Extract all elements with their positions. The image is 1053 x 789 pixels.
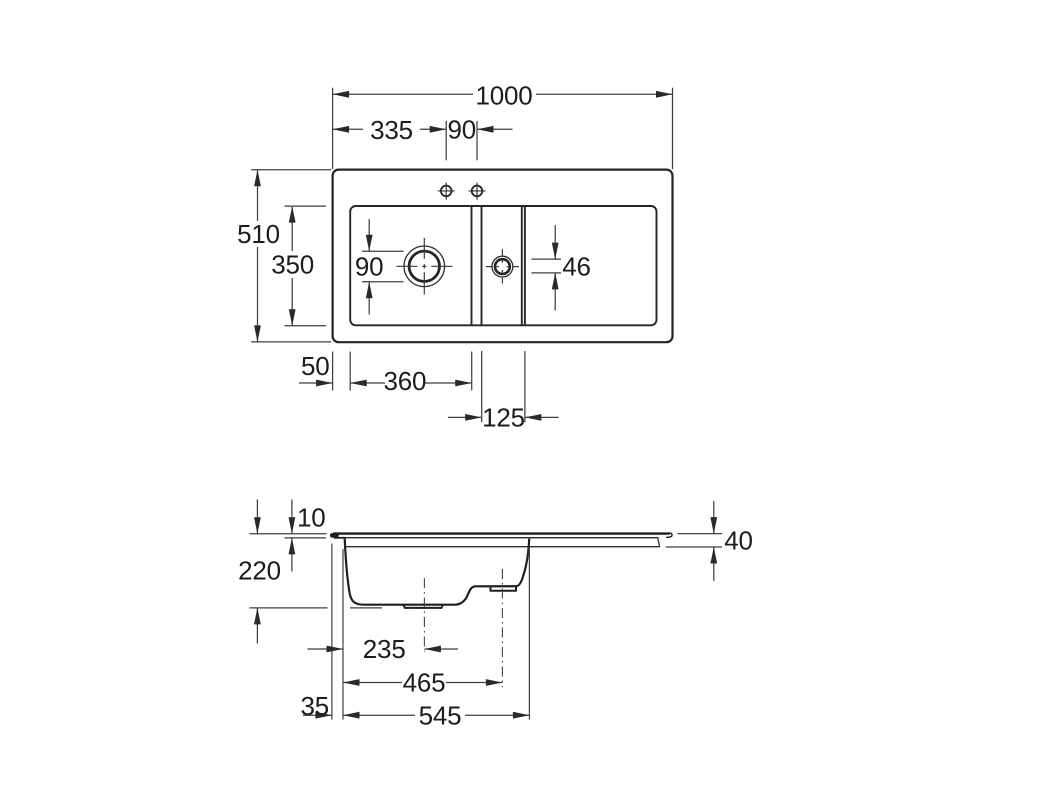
divider: drainer left edge [524,207,526,325]
dimension 10 (rim thickness) [250,500,327,572]
svg-text:125: 125 [482,402,525,432]
rim lower edge line [334,537,346,539]
svg-text:220: 220 [238,556,281,586]
dimension 220 (bowl depth side) [250,500,383,644]
dimension 335 (left tap hole offset) [333,121,477,160]
left bowl drain hole [397,238,453,295]
dimension 90 (tap hole spacing) [477,128,513,130]
svg-text:90: 90 [448,115,477,145]
middle bowl drain hole [486,249,519,283]
svg-text:350: 350 [271,249,314,279]
svg-text:50: 50 [301,351,330,381]
left bowl drain sump [404,605,444,608]
dimension 235 (drain position) [308,648,459,650]
svg-text:335: 335 [370,115,413,145]
bowl section profile (left bowl + middle bowl) [345,539,530,605]
svg-text:10: 10 [297,503,326,533]
rim right tip hook [666,533,672,537]
dimension 125 (middle bowl width) [448,351,559,422]
extension line: bowl outer wall [342,549,344,720]
svg-text:545: 545 [419,701,462,731]
svg-text:46: 46 [562,252,591,282]
svg-text:35: 35 [301,691,330,721]
dimension 46 (middle drain diameter) [532,225,562,311]
divider: left bowl right edge [471,207,473,325]
dimension 35 (rim overhang) [303,714,332,716]
dimension 545 (bowls total width) [343,714,529,716]
svg-text:90: 90 [355,252,384,282]
dimension 465 (middle drain position) [343,682,502,684]
middle bowl drain sump [490,586,516,591]
dimension 360 (left bowl width) [350,352,472,391]
svg-text:235: 235 [363,634,406,664]
svg-text:40: 40 [724,525,753,555]
extension line: middle bowl right wall [528,549,530,720]
centerline left drain [423,578,425,652]
svg-text:465: 465 [403,668,446,698]
dimension 1000 (overall width) [333,88,673,169]
extension line: rim left tip [331,544,333,720]
dimension 40 (rim height right) [666,501,722,581]
bowls inner outline (top view) [350,206,656,325]
tap hole left [438,183,455,200]
rim left tip [332,533,336,538]
centerline middle drain [501,569,503,687]
divider: middle bowl left edge [481,207,483,325]
sink outer rim (top view) [333,170,673,343]
tap hole right [469,183,486,200]
dimension 510 (overall depth) [251,170,331,342]
rim underside line [345,546,660,548]
dimension 90 (left drain diameter) [362,219,404,315]
svg-text:1000: 1000 [475,81,532,111]
divider: middle bowl right edge [521,207,523,325]
svg-text:360: 360 [384,366,427,396]
rim top surface (section) [333,532,670,534]
svg-text:510: 510 [237,219,280,249]
dimension 50 (rim to bowl offset) [299,352,350,391]
dimension 350 (bowl depth) [285,206,327,326]
